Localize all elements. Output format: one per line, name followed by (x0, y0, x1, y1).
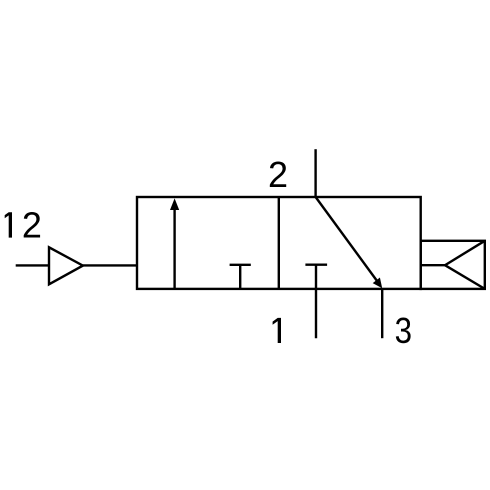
pilot supply wire (left) (16, 264, 49, 266)
port 3 line (381, 289, 383, 338)
label 1 (273, 318, 281, 343)
blocked port T (left position) (230, 265, 251, 289)
position divider (278, 197, 280, 289)
valve body (two-position box) (137, 197, 421, 289)
svg-text:2: 2 (22, 205, 42, 246)
svg-text:2: 2 (268, 154, 288, 195)
spring-return stem (421, 264, 445, 266)
label 12 digit 1 (5, 212, 12, 237)
flow path up-arrow line (left position) (173, 205, 175, 289)
wire pilot to valve body (83, 264, 137, 266)
diagonal arrowhead (to port 3) (373, 278, 383, 289)
blocked port T (right position, port 1) (305, 265, 327, 339)
flow path diagonal line (right position) (316, 197, 380, 285)
pilot actuator triangle (12) (49, 247, 83, 284)
spring-return pilot triangle (445, 241, 485, 289)
spring-return box (421, 241, 485, 289)
up arrowhead (left position) (170, 198, 179, 210)
port 2 line (314, 149, 316, 197)
svg-text:3: 3 (395, 310, 412, 351)
